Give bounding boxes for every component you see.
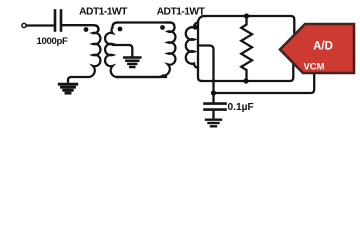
svg-text:A/D: A/D — [313, 41, 333, 53]
svg-text:1000pF: 1000pF — [37, 36, 68, 47]
svg-text:ADT1-1WT: ADT1-1WT — [157, 7, 206, 18]
svg-text:ADT1-1WT: ADT1-1WT — [79, 7, 128, 18]
svg-text:0.1µF: 0.1µF — [228, 102, 254, 113]
svg-text:VCM: VCM — [303, 62, 324, 73]
